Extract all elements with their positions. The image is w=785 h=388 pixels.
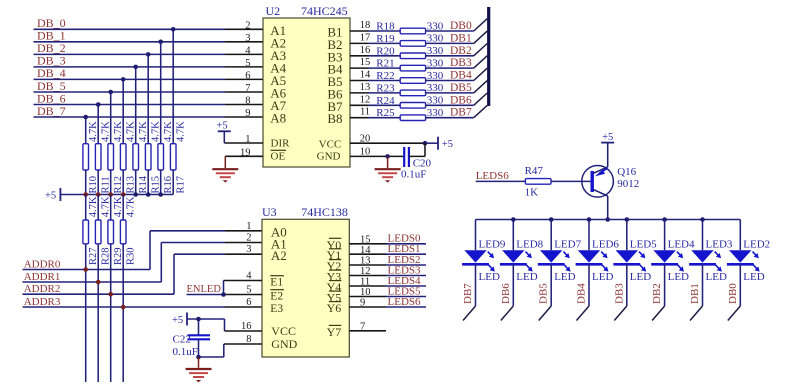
svg-text:74HC245: 74HC245: [301, 4, 348, 18]
wire U3 Y7 stub: [349, 330, 386, 332]
svg-text:DB6: DB6: [500, 283, 512, 304]
net label DB1 (rotated): [689, 283, 701, 304]
wire U3 Y4 to LEDS4: [349, 285, 426, 287]
svg-text:0.1uF: 0.1uF: [173, 346, 198, 358]
wire R24 to bus: [426, 104, 474, 106]
svg-text:13: 13: [360, 82, 371, 93]
U2 pin number 15 (B4): [327, 57, 370, 77]
U2 pin number 9 (A8): [245, 108, 286, 126]
resistor R28 4.7K: [95, 195, 111, 266]
bus entry DB0: [728, 306, 741, 321]
svg-text:15: 15: [360, 57, 371, 68]
U2 pin number 3 (A2): [245, 33, 286, 51]
svg-text:OE: OE: [271, 151, 286, 163]
bus DB[0..7] vertical bar: [487, 7, 490, 106]
svg-text:5: 5: [245, 58, 250, 69]
svg-text:4.7K: 4.7K: [88, 121, 99, 142]
U2 pin 20 VCC: [319, 133, 438, 150]
svg-text:4.7K: 4.7K: [150, 121, 161, 142]
wire DB_0 down to R17: [172, 29, 174, 143]
wire U2 B8 to R25: [350, 117, 400, 119]
svg-text:VCC: VCC: [271, 324, 296, 338]
svg-text:DB2: DB2: [651, 283, 663, 304]
svg-text:LED: LED: [554, 271, 575, 283]
svg-text:R47: R47: [525, 165, 544, 177]
svg-text:GND: GND: [271, 337, 297, 351]
node +5/C22 junction: [196, 317, 201, 322]
U2 pin number 7 (A6): [245, 83, 286, 101]
svg-text:14: 14: [360, 70, 371, 81]
U2 pin number 2 (A1): [245, 20, 286, 38]
svg-text:ENLED: ENLED: [187, 284, 222, 295]
svg-text:4.7K: 4.7K: [125, 196, 136, 217]
resistor R13 4.7K: [120, 121, 136, 195]
wire U3 Y5 to LEDS5: [349, 296, 426, 298]
U3 pin number 13 (Y2): [327, 256, 371, 273]
net label DB5 (rotated): [538, 283, 550, 304]
svg-text:3: 3: [245, 33, 250, 44]
LED LED5: [613, 220, 657, 284]
node: junction DB_5 / R12 tap: [108, 90, 113, 95]
svg-text:DB1: DB1: [450, 32, 472, 44]
node: junction DB_1 / R16 tap: [158, 40, 163, 45]
wire LED6 cathode: [588, 264, 590, 306]
node ADDR3/R30 junction: [121, 305, 126, 310]
bus entry DB7: [463, 306, 476, 321]
bus entry DB3: [614, 306, 627, 321]
svg-text:+5: +5: [442, 139, 453, 150]
svg-text:DB3: DB3: [613, 283, 625, 304]
svg-text:DB0: DB0: [727, 283, 739, 304]
wire ADDR1 to U3: [23, 243, 263, 283]
svg-text:R22: R22: [376, 70, 394, 82]
resistor R47 1K: [525, 165, 551, 198]
bus entry DB4: [577, 306, 590, 321]
net label DB3 (rotated): [613, 283, 625, 304]
svg-text:4.7K: 4.7K: [113, 121, 124, 142]
power +5 at U2 VCC: [438, 137, 453, 150]
wire DB_1 to U2 pin 3: [34, 41, 264, 43]
U3 pin number 14 (Y1): [327, 245, 372, 262]
U2 pin number 17 (B2): [327, 32, 370, 52]
svg-text:LED: LED: [743, 271, 764, 283]
node rail/LED7 junction: [549, 217, 554, 222]
svg-text:U2: U2: [266, 4, 281, 18]
node rail/R30 junction: [121, 192, 126, 197]
wire LED8 cathode: [512, 264, 514, 306]
svg-text:R15: R15: [150, 176, 161, 194]
IC U3 74HC138: [262, 205, 349, 357]
capacitor C22 0.1uF: [173, 319, 211, 358]
ground at U2 OE: [212, 156, 238, 182]
svg-text:7: 7: [245, 83, 250, 94]
wire R47 to Q16 base: [551, 180, 592, 182]
node collector/rail junction: [605, 217, 610, 222]
wire DB_0 to U2 pin 2: [34, 28, 264, 30]
wire LED4 cathode: [664, 264, 666, 306]
U2 pin number 18 (B1): [327, 20, 370, 40]
svg-text:DB4: DB4: [450, 70, 472, 82]
U3 pin number 4 (E1): [246, 271, 284, 289]
LED LED9: [462, 220, 506, 284]
bus entry DB3: [474, 56, 488, 68]
svg-text:DB_7: DB_7: [37, 104, 66, 118]
node: junction DB_3 / R14 tap: [133, 65, 138, 70]
svg-text:+5: +5: [602, 132, 613, 143]
node rail/R14 junction: [133, 192, 138, 197]
U3 pin number 12 (Y3): [327, 266, 371, 283]
wire ADDR3 to U3: [23, 306, 263, 308]
wire LED supply rail: [476, 219, 741, 221]
svg-text:11: 11: [360, 107, 370, 118]
svg-text:4.7K: 4.7K: [138, 121, 149, 142]
net label DB2 (rotated): [651, 283, 663, 304]
U3 pin number 3 (A2): [246, 244, 287, 263]
wire ENLED to U3 E2: [187, 294, 263, 296]
bus entry DB4: [474, 68, 488, 80]
resistor R30 4.7K: [120, 195, 136, 266]
wire U2 B3 to R20: [350, 55, 400, 57]
svg-text:DB3: DB3: [450, 57, 472, 69]
svg-text:R30: R30: [125, 247, 136, 265]
wire +5 to U3 VCC: [187, 319, 262, 331]
wire Q16 collector to LED rail: [607, 196, 609, 220]
svg-text:LED4: LED4: [668, 238, 695, 250]
svg-text:R16: R16: [163, 176, 174, 194]
svg-text:2: 2: [246, 233, 251, 244]
bus entry DB0: [474, 19, 488, 31]
LED LED8: [500, 220, 544, 284]
power +5 rail symbol: [45, 188, 60, 202]
svg-text:R28: R28: [100, 247, 111, 265]
svg-text:4.7K: 4.7K: [175, 121, 186, 142]
svg-text:R12: R12: [113, 176, 124, 194]
svg-text:DB5: DB5: [538, 283, 550, 304]
wire DB_4 to U2 pin 6: [34, 78, 264, 80]
U2 pin 1 DIR: [224, 134, 290, 150]
wire C22 to U3 GND pin 8: [199, 344, 263, 357]
node rail/LED4 junction: [662, 217, 667, 222]
wire R19 to bus: [426, 42, 474, 44]
wire ADDR2 to U3: [23, 254, 263, 294]
svg-text:R23: R23: [376, 82, 395, 94]
wire U2 B1 to R18: [350, 30, 400, 32]
node rail/LED8 junction: [511, 217, 516, 222]
resistor R23 330: [376, 82, 444, 96]
svg-text:DIR: DIR: [271, 138, 291, 150]
svg-text:2: 2: [245, 20, 250, 31]
svg-text:LED: LED: [706, 271, 727, 283]
LED LED2: [727, 220, 770, 284]
wire LED9 cathode: [475, 264, 477, 306]
svg-text:DB7: DB7: [450, 107, 472, 119]
svg-text:6: 6: [246, 297, 251, 308]
ground at C20: [375, 156, 401, 182]
node ADDR1/R28 junction: [96, 280, 101, 285]
svg-text:R24: R24: [376, 95, 395, 107]
U3 pin number 7 (Y7): [327, 321, 366, 338]
U2 pin 19 OE: [225, 147, 286, 162]
wire DB_2 down to R15: [147, 54, 149, 143]
bus entry DB2: [652, 306, 665, 321]
U2 pin number 5 (A4): [245, 58, 286, 76]
svg-text:8: 8: [245, 96, 250, 107]
U3 pin number 5 (E2): [246, 285, 284, 303]
node rail/R27 junction: [83, 192, 88, 197]
node: junction DB_6 / R11 tap: [96, 102, 101, 107]
svg-text:+5: +5: [45, 191, 56, 202]
wire U3 Y1 to LEDS1: [349, 253, 426, 255]
node ADDR0/R27 junction: [83, 267, 88, 272]
svg-text:LED6: LED6: [592, 238, 619, 250]
wire R18 to bus: [426, 30, 474, 32]
svg-text:LED7: LED7: [554, 238, 581, 250]
U3 pin number 1 (A0): [246, 221, 287, 240]
wire R29 down to sheet edge: [110, 244, 112, 382]
U3 pin number 15 (Y0): [327, 234, 371, 252]
svg-text:R14: R14: [138, 175, 149, 193]
svg-text:C22: C22: [173, 333, 191, 345]
wire U3 Y2 to LEDS2: [349, 264, 426, 266]
net label DB0 (rotated): [727, 283, 739, 304]
power +5 at U3 VCC: [172, 313, 187, 326]
U3 pin number 2 (A1): [246, 233, 287, 252]
svg-text:4.7K: 4.7K: [88, 196, 99, 217]
wire U3 Y0 to LEDS0: [349, 243, 426, 245]
wire DB_4 down to R13: [122, 79, 124, 143]
svg-text:+5: +5: [216, 121, 227, 132]
svg-text:6: 6: [245, 70, 250, 81]
node: junction DB_0 / R17 tap: [171, 27, 176, 32]
node C22/GND junction: [196, 355, 201, 360]
svg-text:Q16: Q16: [617, 166, 636, 178]
svg-text:DB6: DB6: [450, 94, 472, 106]
wire LED7 cathode: [550, 264, 552, 306]
resistor R27 4.7K: [83, 195, 99, 266]
node ADDR2/R29 junction: [108, 292, 113, 297]
svg-text:LED8: LED8: [516, 238, 543, 250]
svg-text:R27: R27: [88, 247, 99, 265]
svg-text:ADDR0: ADDR0: [24, 258, 61, 270]
svg-text:LEDS6: LEDS6: [476, 170, 510, 182]
resistor R10 4.7K: [83, 121, 99, 195]
svg-text:LED: LED: [592, 271, 613, 283]
svg-text:3: 3: [246, 244, 251, 255]
svg-text:R20: R20: [376, 45, 395, 57]
bus entry DB1: [690, 306, 703, 321]
svg-text:LED: LED: [630, 271, 651, 283]
U2 pin number 8 (A7): [245, 96, 286, 114]
svg-text:4.7K: 4.7K: [100, 196, 111, 217]
LED LED3: [689, 220, 733, 284]
net label DB4 (rotated): [576, 283, 588, 304]
svg-text:A2: A2: [271, 248, 287, 263]
resistor R18 330: [376, 20, 444, 34]
svg-text:DB1: DB1: [689, 283, 701, 304]
U2 pin number 11 (B8): [327, 107, 370, 127]
bus entry DB6: [501, 306, 514, 321]
wire DB_3 down to R14: [135, 67, 137, 144]
bus entry DB5: [539, 306, 552, 321]
ground at C22: [186, 357, 212, 382]
U2 pin number 14 (B5): [327, 70, 371, 90]
resistor R17 4.7K: [170, 121, 186, 195]
svg-text:4.7K: 4.7K: [125, 121, 136, 142]
svg-text:16: 16: [360, 45, 371, 56]
node rail/R28 junction: [96, 192, 101, 197]
U2 pin number 12 (B7): [327, 94, 370, 114]
svg-text:U3: U3: [262, 205, 277, 219]
wire R21 to bus: [426, 67, 474, 69]
svg-text:A8: A8: [270, 111, 286, 126]
bus entry DB7: [474, 105, 488, 117]
wire DB_7 to U2 pin 9: [34, 116, 264, 118]
resistor R19 330: [376, 33, 444, 46]
svg-text:17: 17: [360, 32, 371, 43]
LED LED7: [538, 220, 582, 284]
U2 pin number 4 (A3): [245, 45, 286, 63]
node: junction DB_2 / R15 tap: [146, 52, 151, 57]
svg-text:LED3: LED3: [706, 238, 733, 250]
svg-text:R10: R10: [88, 176, 99, 194]
net label DB6 (rotated): [500, 283, 512, 304]
U2 pin number 16 (B3): [327, 45, 370, 65]
wire U2 B4 to R21: [350, 67, 400, 69]
U3 pin number 11 (Y4): [327, 277, 370, 294]
wire DB_7 down to R10: [85, 117, 87, 144]
wire U2 B5 to R22: [350, 80, 400, 82]
svg-text:DB7: DB7: [462, 283, 474, 304]
U3 pin number 6 (E3): [246, 297, 283, 315]
svg-text:E2: E2: [270, 291, 283, 303]
svg-text:74HC138: 74HC138: [301, 205, 348, 219]
svg-text:B8: B8: [327, 111, 342, 126]
svg-text:DB5: DB5: [450, 82, 472, 94]
wire DB_3 to U2 pin 5: [34, 66, 264, 68]
node GND/C20 junction: [385, 154, 390, 159]
wire U2 B6 to R23: [350, 92, 400, 94]
svg-text:Y7: Y7: [327, 325, 342, 339]
resistor R25 330: [376, 107, 444, 121]
wire U2 B2 to R19: [350, 42, 400, 44]
svg-text:LED9: LED9: [479, 238, 506, 250]
svg-text:LED5: LED5: [630, 238, 657, 250]
U2 pin 10 GND: [317, 147, 405, 163]
wire DB_2 to U2 pin 4: [34, 53, 264, 55]
svg-text:R25: R25: [376, 107, 395, 119]
node: junction DB_4 / R13 tap: [121, 77, 126, 82]
wire LED2 cathode: [739, 264, 741, 306]
bus entry DB2: [474, 44, 488, 56]
svg-text:LED: LED: [479, 271, 500, 283]
svg-text:12: 12: [360, 94, 371, 105]
svg-text:R13: R13: [125, 176, 136, 194]
wire R25 to bus: [426, 117, 474, 119]
bus entry DB5: [474, 81, 488, 93]
svg-text:Y6: Y6: [327, 301, 342, 315]
wire U3 Y6 to LEDS6: [349, 306, 426, 308]
wire DB_6 to U2 pin 8: [34, 104, 264, 106]
svg-text:E1: E1: [270, 277, 283, 289]
wire R22 to bus: [426, 80, 474, 82]
resistor R20 330: [376, 45, 444, 59]
node rail/LED3 junction: [700, 217, 705, 222]
power +5 at Q16 emitter: [601, 132, 614, 143]
wire LEDS6 to R47: [476, 180, 526, 182]
node rail/LED6 junction: [587, 217, 592, 222]
svg-text:VCC: VCC: [319, 139, 342, 151]
resistor R29 4.7K: [108, 195, 124, 266]
U3 pin number 9 (Y6): [327, 298, 366, 315]
power +5 at U2 DIR: [216, 121, 230, 144]
svg-text:LEDS6: LEDS6: [388, 296, 422, 308]
wire R27 down to sheet edge: [85, 244, 87, 382]
wire R23 to bus: [426, 92, 474, 94]
wire R28 down to sheet edge: [97, 244, 99, 382]
wire DB_5 down to R12: [110, 92, 112, 144]
wire Q16 emitter to +5: [607, 143, 609, 167]
resistor R16 4.7K: [158, 121, 174, 195]
bus entry DB1: [474, 31, 488, 43]
svg-text:9012: 9012: [617, 178, 639, 190]
svg-text:4: 4: [245, 45, 251, 56]
resistor R21 330: [376, 57, 444, 71]
resistor R24 330: [376, 95, 444, 109]
U3 pin number 8 (GND): [246, 334, 297, 351]
svg-text:ADDR2: ADDR2: [24, 283, 61, 295]
bus entry DB6: [474, 93, 488, 105]
svg-text:1K: 1K: [525, 186, 539, 198]
svg-text:LED2: LED2: [743, 238, 770, 250]
node VCC/C20 junction: [423, 141, 428, 146]
svg-text:DB0: DB0: [450, 20, 472, 32]
wire DB_6 down to R11: [97, 105, 99, 144]
node rail/R15 junction: [146, 192, 151, 197]
LED LED6: [576, 220, 620, 284]
node rail/LED5 junction: [625, 217, 630, 222]
resistor R14 4.7K: [133, 121, 149, 195]
svg-text:DB4: DB4: [576, 283, 588, 304]
wire R30 down to sheet edge: [122, 244, 124, 382]
wire +5 rail: [60, 194, 173, 196]
node: junction DB_7 / R10 tap: [83, 115, 88, 120]
wire U3 Y3 to LEDS3: [349, 275, 426, 277]
resistor R15 4.7K: [145, 121, 161, 195]
wire R20 to bus: [426, 55, 474, 57]
svg-text:R11: R11: [100, 176, 111, 193]
svg-text:R18: R18: [376, 21, 395, 33]
svg-text:GND: GND: [317, 150, 341, 162]
svg-text:4.7K: 4.7K: [163, 121, 174, 142]
resistor R12 4.7K: [108, 121, 124, 195]
wire DB_1 down to R16: [160, 42, 162, 144]
U3 pin number 16 (VCC): [241, 321, 296, 338]
U2 pin number 13 (B6): [327, 82, 370, 102]
svg-text:18: 18: [360, 20, 371, 31]
node rail/R29 junction: [108, 192, 113, 197]
svg-text:+5: +5: [172, 315, 183, 326]
svg-text:LED: LED: [516, 271, 537, 283]
LED LED4: [651, 220, 695, 284]
net label DB7 (rotated): [462, 283, 474, 304]
svg-text:R29: R29: [113, 247, 124, 265]
svg-text:E3: E3: [270, 303, 283, 315]
U2 pin number 6 (A5): [245, 70, 286, 88]
svg-text:DB2: DB2: [450, 45, 472, 57]
svg-text:LED: LED: [668, 271, 689, 283]
node ENLED/E1 junction: [221, 292, 226, 297]
wire DB_5 to U2 pin 7: [34, 91, 264, 93]
